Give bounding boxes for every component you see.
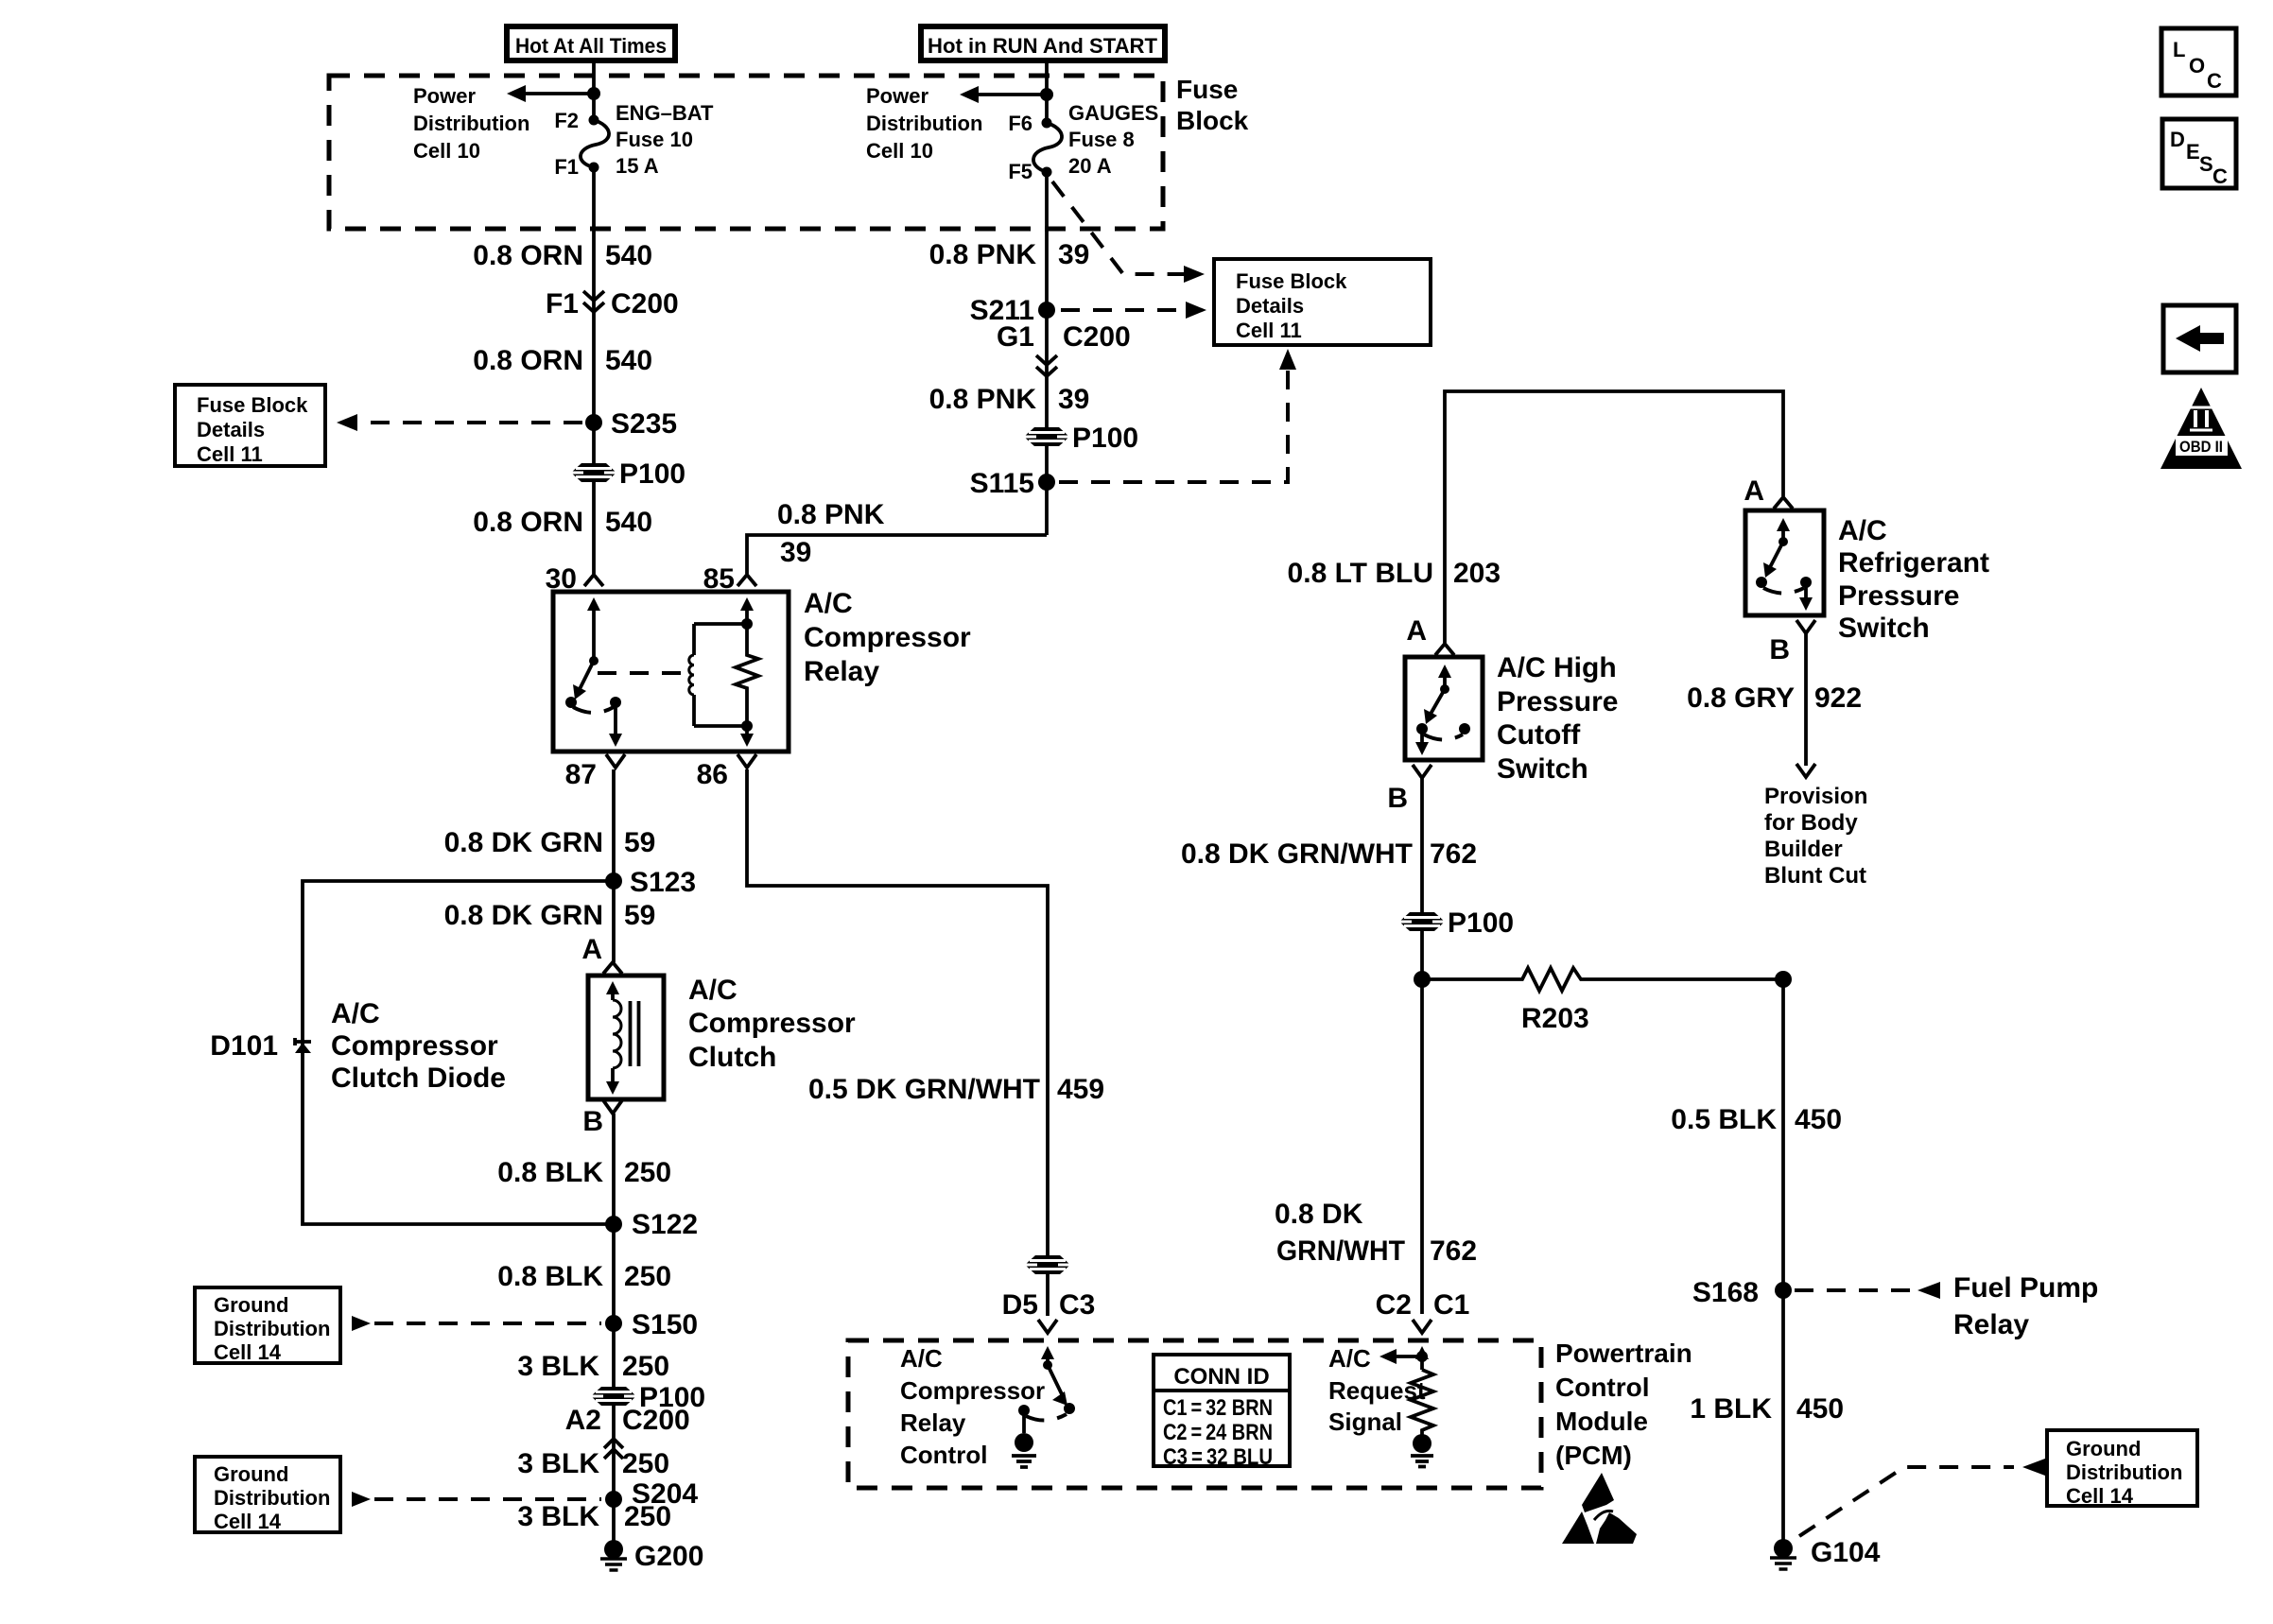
connector grommet on 459 wire [1025,1255,1070,1274]
svg-text:Cell 14: Cell 14 [2066,1484,2134,1508]
svg-text:C200: C200 [622,1405,690,1436]
node S211 [970,295,1055,326]
node Fuse Block Details Cell 11 left box [175,385,325,466]
svg-text:G104: G104 [1811,1537,1881,1568]
label 0.8 PNK 39 upper [929,239,1090,270]
svg-text:540: 540 [605,240,652,271]
svg-text:Cell 14: Cell 14 [214,1340,282,1364]
svg-text:Distribution: Distribution [214,1317,330,1340]
svg-text:Fuse: Fuse [1176,75,1238,104]
node Ground Distribution Cell 14 box right [2047,1430,2197,1508]
svg-text:59: 59 [624,827,655,858]
svg-text:C2 = 24 BRN: C2 = 24 BRN [1163,1420,1273,1445]
svg-text:Compressor: Compressor [804,622,971,653]
node power distribution junction left [587,87,600,100]
node Hot At All Times [507,26,675,60]
svg-text:C2: C2 [1376,1289,1412,1321]
PCM dashed box [848,1340,1541,1488]
label 0.8 BLK 250 first [497,1157,671,1188]
switch A/C Refrigerant Pressure Switch box [1745,510,1989,644]
svg-text:A/C: A/C [804,588,853,619]
label 0.8 DK GRN 59 second [444,900,656,931]
clutch plates [631,1001,639,1066]
relay actuation dashed link [598,671,686,675]
svg-text:922: 922 [1814,682,1862,714]
svg-text:ENG–BAT: ENG–BAT [616,101,714,125]
svg-text:Relay: Relay [1953,1309,2029,1340]
svg-text:203: 203 [1453,558,1501,589]
svg-text:250: 250 [624,1501,671,1532]
svg-text:86: 86 [697,759,728,790]
svg-text:Fuse 10: Fuse 10 [616,128,693,151]
svg-text:0.8 PNK: 0.8 PNK [777,499,885,530]
wire LT BLU linking pressure switches [1445,391,1783,643]
icon DESC box [2162,119,2236,188]
label 0.8 DK GRN/WHT 762 lower [1275,1199,1477,1267]
switch A/C compressor relay control in PCM [1018,1346,1075,1433]
svg-text:S122: S122 [632,1209,698,1240]
svg-text:Details: Details [197,418,265,441]
node S204 [605,1478,698,1510]
svg-text:Hot At All Times: Hot At All Times [515,34,667,58]
label 0.8 ORN 540 third [473,507,652,538]
svg-text:F6: F6 [1008,112,1032,135]
svg-text:Ground: Ground [2066,1437,2141,1460]
svg-text:0.8 DK GRN: 0.8 DK GRN [444,827,603,858]
svg-text:(PCM): (PCM) [1555,1441,1632,1470]
svg-text:D101: D101 [210,1030,278,1062]
svg-text:G1: G1 [997,321,1034,353]
svg-text:F1: F1 [554,155,579,179]
svg-text:A/C: A/C [331,998,380,1029]
svg-text:B: B [1769,634,1790,665]
svg-text:39: 39 [1058,384,1089,415]
connector P100 middle [1024,423,1138,454]
svg-text:Distribution: Distribution [413,112,529,135]
label Fuse Block [1176,75,1249,135]
relay resistor [736,597,758,747]
svg-text:Fuse Block: Fuse Block [1236,269,1347,293]
label 0.8 DK GRN/WHT 762 upper [1181,838,1477,870]
svg-text:Power: Power [866,84,928,108]
svg-text:Provision: Provision [1764,784,1867,809]
svg-text:S123: S123 [630,867,696,898]
svg-text:Ground: Ground [214,1462,288,1486]
wire dashed G104 to ground distribution [1799,1459,2045,1536]
wire cutoff switch B to PCM C1 [1420,778,1424,1314]
svg-text:250: 250 [622,1351,669,1382]
label 0.8 ORN 540 second [473,345,652,376]
label 0.5 DK GRN/WHT 459 [808,1074,1104,1105]
svg-text:540: 540 [605,507,652,538]
table CONN ID [1154,1355,1290,1470]
svg-text:for Body: for Body [1764,810,1858,836]
connector P100 right [1399,907,1514,939]
svg-text:540: 540 [605,345,652,376]
label A/C Compressor Relay Control [900,1344,1045,1469]
node S123 [605,867,696,898]
svg-text:Refrigerant: Refrigerant [1838,547,1989,579]
relay switch contacts [565,597,622,747]
svg-text:450: 450 [1795,1104,1842,1135]
svg-text:3 BLK: 3 BLK [517,1351,599,1382]
svg-text:Fuel Pump: Fuel Pump [1953,1272,2098,1304]
svg-text:C3 = 32 BLU: C3 = 32 BLU [1163,1444,1273,1470]
ground G200 [600,1540,703,1572]
pin 85 [703,563,756,595]
svg-text:Relay: Relay [900,1408,966,1437]
svg-text:G200: G200 [634,1541,703,1572]
wire dashed ground distribution to S150 [352,1316,601,1331]
wire diode branch [303,881,614,1224]
svg-text:Powertrain: Powertrain [1555,1339,1692,1368]
svg-text:0.5 BLK: 0.5 BLK [1671,1104,1777,1135]
svg-text:D: D [2170,128,2185,151]
svg-text:S168: S168 [1692,1277,1759,1308]
svg-text:Module: Module [1555,1407,1648,1436]
svg-text:C: C [2207,69,2222,93]
pin A clutch [581,934,622,974]
pin A high pressure cutoff switch [1406,615,1454,655]
svg-text:Clutch Diode: Clutch Diode [331,1063,506,1094]
wire hot-at-all-times feed [592,60,596,120]
wire middle PNK column [1045,172,1049,535]
ground inside PCM left [1012,1433,1036,1467]
node S150 [605,1309,698,1340]
icon LOC box [2161,28,2236,95]
svg-text:Fuse 8: Fuse 8 [1068,128,1135,151]
blunt cut chevron [1796,764,1815,777]
svg-text:0.8 LT BLU: 0.8 LT BLU [1288,558,1433,589]
svg-text:Compressor: Compressor [900,1376,1045,1405]
icon OBD II triangle [2160,388,2242,469]
switch contacts refrigerant pressure [1756,518,1813,611]
svg-text:Signal: Signal [1328,1408,1402,1436]
fuse F2/F1 ENG-BAT Fuse 10 15A [554,101,714,179]
wire relay 86 to PCM D5 [747,769,1048,1316]
svg-text:GRN/WHT: GRN/WHT [1276,1235,1405,1267]
svg-text:Switch: Switch [1497,753,1588,785]
svg-text:0.8 BLK: 0.8 BLK [497,1261,603,1292]
connector D5 C3 [1002,1289,1096,1333]
svg-text:C: C [2212,164,2228,188]
svg-text:0.8 PNK: 0.8 PNK [929,239,1037,270]
svg-text:GAUGES: GAUGES [1068,101,1158,125]
icon back arrow box [2163,305,2236,372]
wire dashed S211 to fuse block details [1061,302,1206,319]
svg-text:0.8 ORN: 0.8 ORN [473,345,583,376]
label Provision for Body Builder Blunt Cut [1764,784,1867,889]
wire power distribution arrow left [507,85,594,102]
svg-text:0.8 PNK: 0.8 PNK [929,384,1037,415]
label A/C Compressor Clutch Diode [331,998,506,1094]
svg-text:Hot in RUN And START: Hot in RUN And START [928,34,1158,58]
ESD warning triangle [1562,1473,1637,1544]
wire 87 to clutch A [612,769,616,962]
label 0.8 PNK 39 lower [929,384,1090,415]
diode D101 [210,1030,311,1062]
svg-text:762: 762 [1430,838,1477,870]
svg-text:59: 59 [624,900,655,931]
svg-text:Distribution: Distribution [2066,1460,2182,1484]
svg-text:Ground: Ground [214,1293,288,1317]
svg-text:Cell 10: Cell 10 [866,139,933,163]
svg-text:A/C: A/C [1328,1344,1371,1373]
wire PNK from S115 corner to pin 85 [747,535,1047,574]
svg-text:Switch: Switch [1838,613,1930,644]
label Power Distribution Cell 10 left [413,84,529,163]
svg-text:1 BLK: 1 BLK [1690,1393,1772,1425]
node S235 [585,408,677,440]
node Fuse Block Details Cell 11 right box [1214,259,1431,345]
wire power distribution arrow right [960,86,1047,103]
wire clutch B to G200 [612,1114,616,1541]
label 0.8 DK GRN 59 first [444,827,656,858]
svg-text:Cell 10: Cell 10 [413,139,480,163]
pin B refrigerant pressure switch [1769,620,1815,665]
label Powertrain Control Module (PCM) [1555,1339,1692,1470]
svg-text:Builder: Builder [1764,837,1843,862]
connector P100 lower [591,1382,705,1413]
svg-text:Relay: Relay [804,656,879,687]
svg-text:S115: S115 [970,468,1034,499]
resistor R203 [1422,968,1783,1034]
svg-text:A: A [1744,475,1764,507]
svg-text:Blunt Cut: Blunt Cut [1764,863,1866,889]
node Ground Distribution Cell 14 box upper [195,1287,340,1364]
svg-text:L: L [2173,38,2185,61]
svg-text:B: B [1387,783,1408,814]
svg-text:15 A: 15 A [616,154,659,178]
svg-text:Distribution: Distribution [866,112,982,135]
label Power Distribution Cell 10 right [866,84,982,163]
clutch coil [606,981,621,1095]
svg-text:OBD II: OBD II [2179,438,2223,456]
svg-text:C1: C1 [1433,1289,1469,1321]
svg-text:0.8 DK GRN: 0.8 DK GRN [444,900,603,931]
wire dashed ground distribution to S204 [352,1492,601,1507]
pin 87 [565,754,625,790]
relay A/C Compressor Relay box [553,588,971,752]
svg-text:C3: C3 [1059,1289,1095,1321]
svg-text:250: 250 [624,1261,671,1292]
connector G1 C200 [997,321,1131,376]
svg-text:Pressure: Pressure [1838,580,1959,612]
svg-text:0.8 DK GRN/WHT: 0.8 DK GRN/WHT [1181,838,1413,870]
clutch A/C Compressor Clutch box [588,975,856,1099]
label A/C Request Signal [1328,1344,1426,1436]
node R203 left junction [1414,971,1431,988]
label 0.5 BLK 450 [1671,1104,1842,1135]
switch A/C High Pressure Cutoff Switch box [1405,652,1618,785]
svg-text:D5: D5 [1002,1289,1038,1321]
pin 30 [546,563,603,595]
svg-text:459: 459 [1057,1074,1104,1105]
svg-text:S: S [2199,152,2213,176]
svg-text:39: 39 [1058,239,1089,270]
svg-text:Compressor: Compressor [688,1008,856,1039]
svg-text:Details: Details [1236,294,1304,318]
svg-text:Fuse Block: Fuse Block [197,393,308,417]
svg-text:C200: C200 [611,288,679,320]
node R203 right junction [1775,971,1792,988]
svg-text:P100: P100 [1448,907,1514,939]
fuse F6/F5 GAUGES Fuse 8 20A [1008,101,1158,183]
ground G104 [1770,1537,1881,1569]
svg-text:Control: Control [1555,1373,1650,1402]
svg-text:3 BLK: 3 BLK [517,1448,599,1479]
connector A2 C200 [565,1405,690,1459]
svg-text:O: O [2189,54,2205,78]
svg-text:A/C: A/C [688,975,737,1006]
svg-text:S150: S150 [632,1309,698,1340]
connector F1 C200 [546,288,679,320]
svg-text:S235: S235 [611,408,677,440]
connector C2 C1 [1376,1289,1470,1333]
node power distribution junction right [1040,88,1053,101]
svg-text:Control: Control [900,1441,987,1469]
svg-text:20 A: 20 A [1068,154,1112,178]
svg-text:C1 = 32 BRN: C1 = 32 BRN [1163,1395,1273,1421]
relay coil [689,618,753,732]
label 0.8 PNK 39 at corner [777,499,885,568]
wire dashed S115 to details box [1059,349,1296,482]
pin B high pressure cutoff switch [1387,765,1431,814]
svg-text:P100: P100 [619,458,685,490]
wire dashed fuse-block detail diagonal [1052,181,1205,283]
switch contacts high pressure cutoff [1415,665,1470,755]
svg-text:3 BLK: 3 BLK [517,1501,599,1532]
wire BLK 450 ground chain [1781,979,1785,1541]
resistor A/C request signal in PCM [1379,1346,1433,1435]
node S122 [605,1209,698,1240]
svg-text:0.8 BLK: 0.8 BLK [497,1157,603,1188]
svg-text:A/C: A/C [900,1344,943,1373]
svg-text:A/C High: A/C High [1497,652,1617,683]
svg-text:87: 87 [565,759,597,790]
pin 86 [697,754,756,790]
svg-text:Pressure: Pressure [1497,686,1618,717]
svg-text:CONN ID: CONN ID [1173,1364,1269,1390]
label 3 BLK 250 second [517,1448,669,1479]
label 0.8 GRY 922 [1687,682,1862,714]
node Hot in RUN And START [921,26,1165,60]
svg-text:R203: R203 [1521,1003,1589,1034]
svg-text:0.8 ORN: 0.8 ORN [473,507,583,538]
wire hot-in-run feed [1045,60,1049,123]
svg-text:39: 39 [780,537,811,568]
fuse block dashed outline [329,76,1163,229]
svg-text:0.5 DK GRN/WHT: 0.5 DK GRN/WHT [808,1074,1040,1105]
connector P100 left [571,458,685,490]
label 0.8 ORN 540 first [473,240,652,271]
label 0.8 BLK 250 second [497,1261,671,1292]
svg-text:Compressor: Compressor [331,1030,498,1062]
wire dashed S168 to fuel pump relay [1795,1282,1940,1299]
svg-text:F5: F5 [1008,160,1032,183]
svg-text:0.8 ORN: 0.8 ORN [473,240,583,271]
svg-text:F2: F2 [554,109,579,132]
svg-text:0.8 GRY: 0.8 GRY [1687,682,1795,714]
svg-text:Cutoff: Cutoff [1497,719,1581,751]
label 3 BLK 250 third [517,1501,671,1532]
svg-text:Distribution: Distribution [214,1486,330,1510]
svg-text:250: 250 [622,1448,669,1479]
svg-text:Block: Block [1176,106,1249,135]
svg-text:A: A [581,934,602,965]
node Ground Distribution Cell 14 box lower [195,1457,340,1533]
node S168 [1692,1277,1792,1308]
svg-text:P100: P100 [1072,423,1138,454]
label 0.8 LT BLU 203 [1288,558,1501,589]
svg-text:762: 762 [1430,1235,1477,1267]
svg-text:Cell 14: Cell 14 [214,1510,282,1533]
pin B clutch [582,1100,622,1137]
label 3 BLK 250 first [517,1351,669,1382]
node S115 [970,468,1055,499]
ground inside PCM right [1411,1434,1433,1467]
wire GRY to blunt cut [1804,633,1808,766]
svg-text:F1: F1 [546,288,579,320]
label Fuel Pump Relay [1953,1272,2098,1340]
pin A refrigerant pressure switch [1744,475,1793,509]
wire left ORN wire 540 upper [592,167,596,574]
label 1 BLK 450 [1690,1393,1844,1425]
svg-text:C200: C200 [1063,321,1131,353]
svg-text:B: B [582,1106,603,1137]
svg-text:A2: A2 [565,1405,601,1436]
svg-text:450: 450 [1796,1393,1844,1425]
svg-text:0.8 DK: 0.8 DK [1275,1199,1363,1230]
svg-text:250: 250 [624,1157,671,1188]
svg-text:Cell 11: Cell 11 [197,442,263,466]
svg-text:E: E [2186,140,2200,164]
svg-text:A: A [1406,615,1427,647]
svg-text:Cell 11: Cell 11 [1236,319,1302,342]
svg-text:Power: Power [413,84,476,108]
wire dashed to fuse block details left [337,414,582,431]
svg-text:A/C: A/C [1838,515,1887,546]
svg-text:Clutch: Clutch [688,1042,776,1073]
